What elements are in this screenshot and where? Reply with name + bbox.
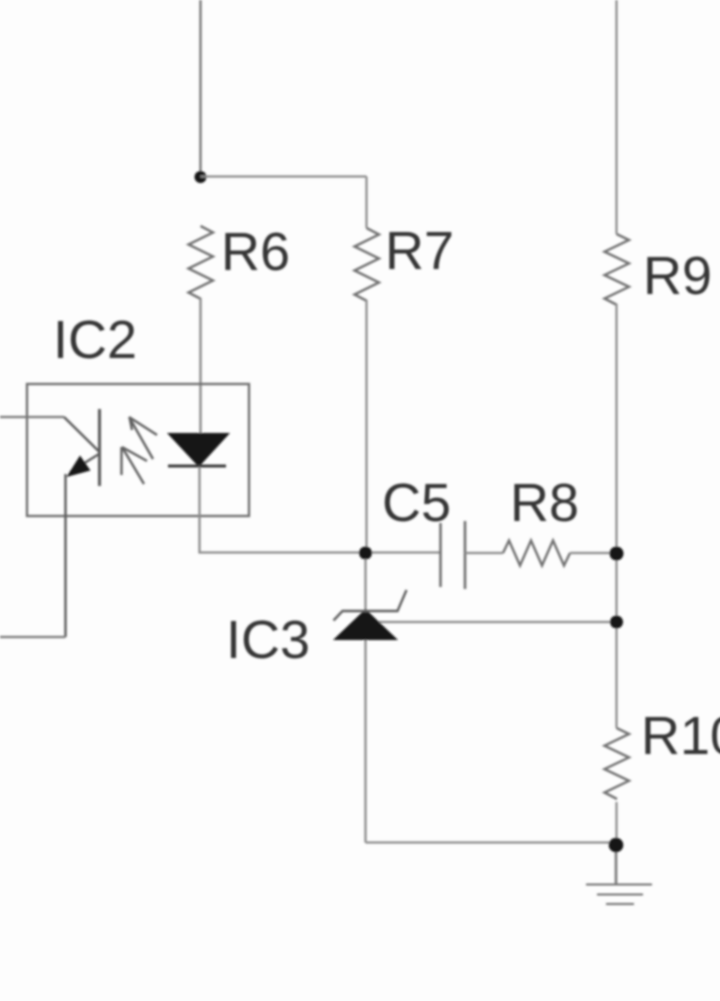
svg-text:R8: R8 bbox=[510, 473, 579, 533]
wire bbox=[199, 0, 201, 177]
wire bbox=[200, 467, 441, 553]
ground bbox=[586, 885, 652, 905]
resistor R6 bbox=[189, 226, 214, 299]
resistor R7 bbox=[355, 228, 380, 301]
wire bbox=[615, 0, 617, 234]
wire bbox=[570, 552, 617, 554]
node junction C5-R8 to divider bbox=[610, 547, 624, 561]
wire bbox=[615, 304, 617, 728]
node junction top-left bbox=[195, 171, 207, 183]
svg-text:R9: R9 bbox=[643, 246, 712, 306]
wire bbox=[201, 175, 367, 177]
wire bbox=[364, 640, 366, 843]
svg-text:R6: R6 bbox=[221, 222, 290, 282]
optocoupler IC2 box bbox=[27, 384, 249, 516]
wire bbox=[615, 845, 618, 884]
wire bbox=[364, 559, 366, 613]
node junction divider mid tap bbox=[610, 616, 623, 629]
node junction at R7/IC3 tap bbox=[359, 547, 372, 560]
wire bbox=[465, 552, 503, 554]
wire bbox=[374, 621, 617, 623]
wire bbox=[365, 300, 367, 548]
resistor R10 bbox=[605, 728, 630, 799]
node junction ground bbox=[609, 838, 624, 853]
wire bbox=[0, 636, 66, 638]
resistor R9 bbox=[605, 234, 630, 305]
svg-text:R10: R10 bbox=[641, 706, 720, 766]
capacitor C5 bbox=[441, 521, 466, 589]
resistor R8 bbox=[503, 541, 570, 566]
svg-text:R7: R7 bbox=[385, 221, 454, 281]
svg-text:IC2: IC2 bbox=[53, 310, 137, 370]
LED of IC2 bbox=[167, 433, 230, 467]
phototransistor of IC2 bbox=[64, 409, 100, 637]
wire bbox=[615, 802, 617, 845]
wire bbox=[199, 298, 201, 434]
LED cathode bar bbox=[168, 465, 226, 468]
IC3 cathode bar with bent ends bbox=[334, 590, 407, 621]
phototransistor emitter arrow bbox=[67, 456, 91, 478]
wire bbox=[365, 177, 367, 229]
wire bbox=[0, 416, 64, 418]
LED light arrows bbox=[122, 417, 158, 484]
shunt regulator IC3 (zener) bbox=[333, 609, 398, 640]
wire bbox=[366, 841, 617, 843]
svg-text:IC3: IC3 bbox=[226, 610, 310, 670]
